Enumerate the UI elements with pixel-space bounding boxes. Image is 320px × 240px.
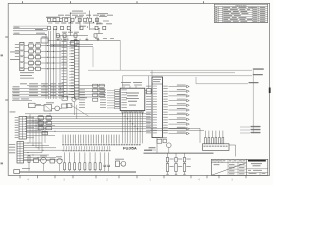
frame tick top 1 (70, 1, 72, 3)
net label left VCC (10, 51, 20, 54)
frame ticks bottom (20, 175, 246, 178)
labelled wire row 100 (12, 99, 32, 101)
rail end labels lower right (240, 126, 261, 133)
resistor pack RP1 (41, 38, 48, 43)
wire to cap bank (62, 16, 70, 18)
vertical rail drop right (252, 70, 254, 133)
discrete RC pairs rows (24, 42, 67, 70)
frame zone numerals bottom (27, 179, 233, 182)
resistor R bottom-left (28, 156, 30, 163)
FUJITSU logo bar (248, 160, 266, 162)
wire rail 2 (150, 72, 235, 74)
border frame (8, 3, 269, 175)
connector J3 (19, 117, 27, 140)
stamp side label (149, 147, 157, 150)
testpoint list text (20, 72, 34, 78)
vertical from U2 to bus (156, 138, 158, 154)
bottom ground bus line 2 (20, 171, 137, 173)
IC U1 bottom pin cells (122, 111, 144, 113)
IC U2 driver (152, 77, 163, 138)
vertical feeder x60 (59, 36, 61, 99)
junction dots U1 drops (122, 113, 143, 132)
connector J6 label row (62, 144, 140, 146)
resistor pack RP2 (147, 89, 152, 94)
net label row 1 (46, 17, 61, 22)
power entry box (14, 170, 20, 174)
vertical feeder x56 (55, 29, 57, 100)
connector J1 pin labels (71, 42, 74, 98)
IC U1 floppy controller (120, 88, 145, 110)
terminator resistors row (64, 152, 102, 171)
signal bus heavy (144, 152, 214, 154)
diagonal wire to bus (70, 105, 89, 117)
connector J5 feed drops (205, 131, 223, 138)
bottom bus label (22, 167, 30, 170)
vertical feeder x53.3 (52, 29, 54, 100)
vertical feeder x67 (66, 36, 68, 99)
bus wires with labels upper group (12, 83, 105, 97)
connector J1 ladder (74, 41, 79, 99)
frame tick top 3 (203, 1, 205, 3)
IC U1 right wires (145, 90, 147, 92)
vertical drop x46 (45, 35, 47, 99)
analog section wires (56, 11, 99, 41)
risers from J4 to bus (30, 114, 45, 153)
connector J3 pin labels (15, 117, 19, 138)
wire drop to J5 (199, 128, 201, 143)
vertical rail left join (119, 40, 121, 70)
revision table entries (215, 7, 265, 22)
connector J2 left labels (15, 44, 19, 57)
net label left GND (10, 58, 20, 61)
vertical feeder x48.5 (48, 31, 50, 99)
IC U1 top labels (121, 82, 142, 88)
title block left/right divider (246, 159, 248, 175)
label above tap wire (72, 10, 83, 13)
junction dots J4 wires (28, 143, 44, 161)
wire rail 3 (123, 75, 253, 77)
wire rail 4 stub (196, 83, 248, 85)
revision table (214, 4, 267, 22)
analog filter section (48, 13, 114, 37)
rail end labels right (249, 68, 264, 83)
input wire 3 (13, 33, 46, 35)
vertical feeder x63.5 (63, 36, 65, 99)
bus stub dots mid (30, 113, 56, 132)
wire bus segment B (50, 46, 93, 48)
oscillator circuit row (29, 102, 68, 111)
IC U2 left pin labels (146, 86, 157, 134)
transistor Q3 (167, 143, 172, 148)
pullup chains (166, 153, 191, 174)
junction dots upper bus (44, 85, 70, 95)
left border scan tick (1, 55, 4, 57)
bottom ground bus line 1 (20, 170, 137, 172)
input wire 1 (13, 27, 48, 29)
title text lines (247, 163, 268, 175)
frame tick top 2 (136, 1, 138, 3)
wire RP2 up (148, 76, 150, 89)
vertical rail left join 2 (122, 76, 124, 88)
connector J4 wires (24, 143, 64, 160)
IC U1 left pin labels (79, 89, 120, 108)
ladder top cell box (71, 41, 77, 46)
bias network box (34, 158, 39, 162)
capacitor pair under connector (103, 152, 110, 171)
gate cluster under ladder (62, 96, 87, 119)
frame tick left 1 (5, 36, 8, 38)
connector J5 pin rectangles (205, 138, 224, 144)
ground symbols analog (57, 38, 100, 41)
wire VCC rail (88, 69, 252, 71)
net label left lower (10, 111, 16, 114)
Q3 boxes (157, 137, 169, 153)
wire bus to J5 lower (151, 130, 205, 132)
IC U1 inner pin names (121, 90, 127, 108)
component pair right of terminators (115, 159, 126, 167)
junction dot input (45, 34, 46, 35)
wire bus segment A (50, 44, 93, 46)
connector J2 host (20, 42, 24, 70)
transistor Q2 (57, 158, 62, 163)
vertical feeder x50.5 (50, 31, 52, 99)
connector J5 body (203, 144, 230, 151)
connector J4 label block (9, 144, 16, 153)
faint feed line y26 (13, 25, 50, 27)
J3 area small comps (38, 115, 52, 135)
transistor Q1 (41, 158, 47, 164)
wire RP1 to bus (48, 39, 120, 41)
bus left label (144, 150, 152, 151)
region box top ticks (95, 37, 114, 40)
bias network box 2 (50, 159, 55, 163)
IC U2 vertical feeds (151, 70, 153, 77)
IC U1 bottom pin drops (123, 111, 143, 144)
connector J3 wires (27, 118, 56, 138)
connector J4 (17, 142, 24, 164)
connector J1 left wires (69, 42, 74, 95)
connector J6 second label row (63, 146, 111, 151)
title block approval strip (211, 159, 246, 162)
connector J5 side bracket (229, 145, 236, 157)
connector J6 pin comb (63, 135, 119, 144)
series boxes on bus (93, 84, 105, 101)
wire bus to J5 upper (151, 127, 201, 129)
main data bus lines (25, 114, 151, 132)
cluster wires (24, 156, 63, 172)
connector J1 row net labels (62, 41, 67, 94)
svg-text:FUJI5A: FUJI5A (123, 145, 137, 150)
svg-text:REVISIONS: REVISIONS (236, 5, 248, 7)
junction dots feeders (47, 45, 54, 69)
frame tick left 2 (5, 99, 8, 101)
title block diagonal (211, 163, 246, 176)
left border scan tick 2 (1, 163, 4, 165)
title block outline (211, 159, 267, 175)
junction dots analog (70, 13, 100, 31)
stub vertical right of ladder (92, 47, 94, 67)
title block sub rows (214, 163, 247, 176)
frame tick top 0 (22, 1, 24, 3)
IC U2 right pins and labels (163, 85, 189, 135)
input wire 2 (13, 29, 48, 31)
frame tick right (269, 88, 271, 94)
